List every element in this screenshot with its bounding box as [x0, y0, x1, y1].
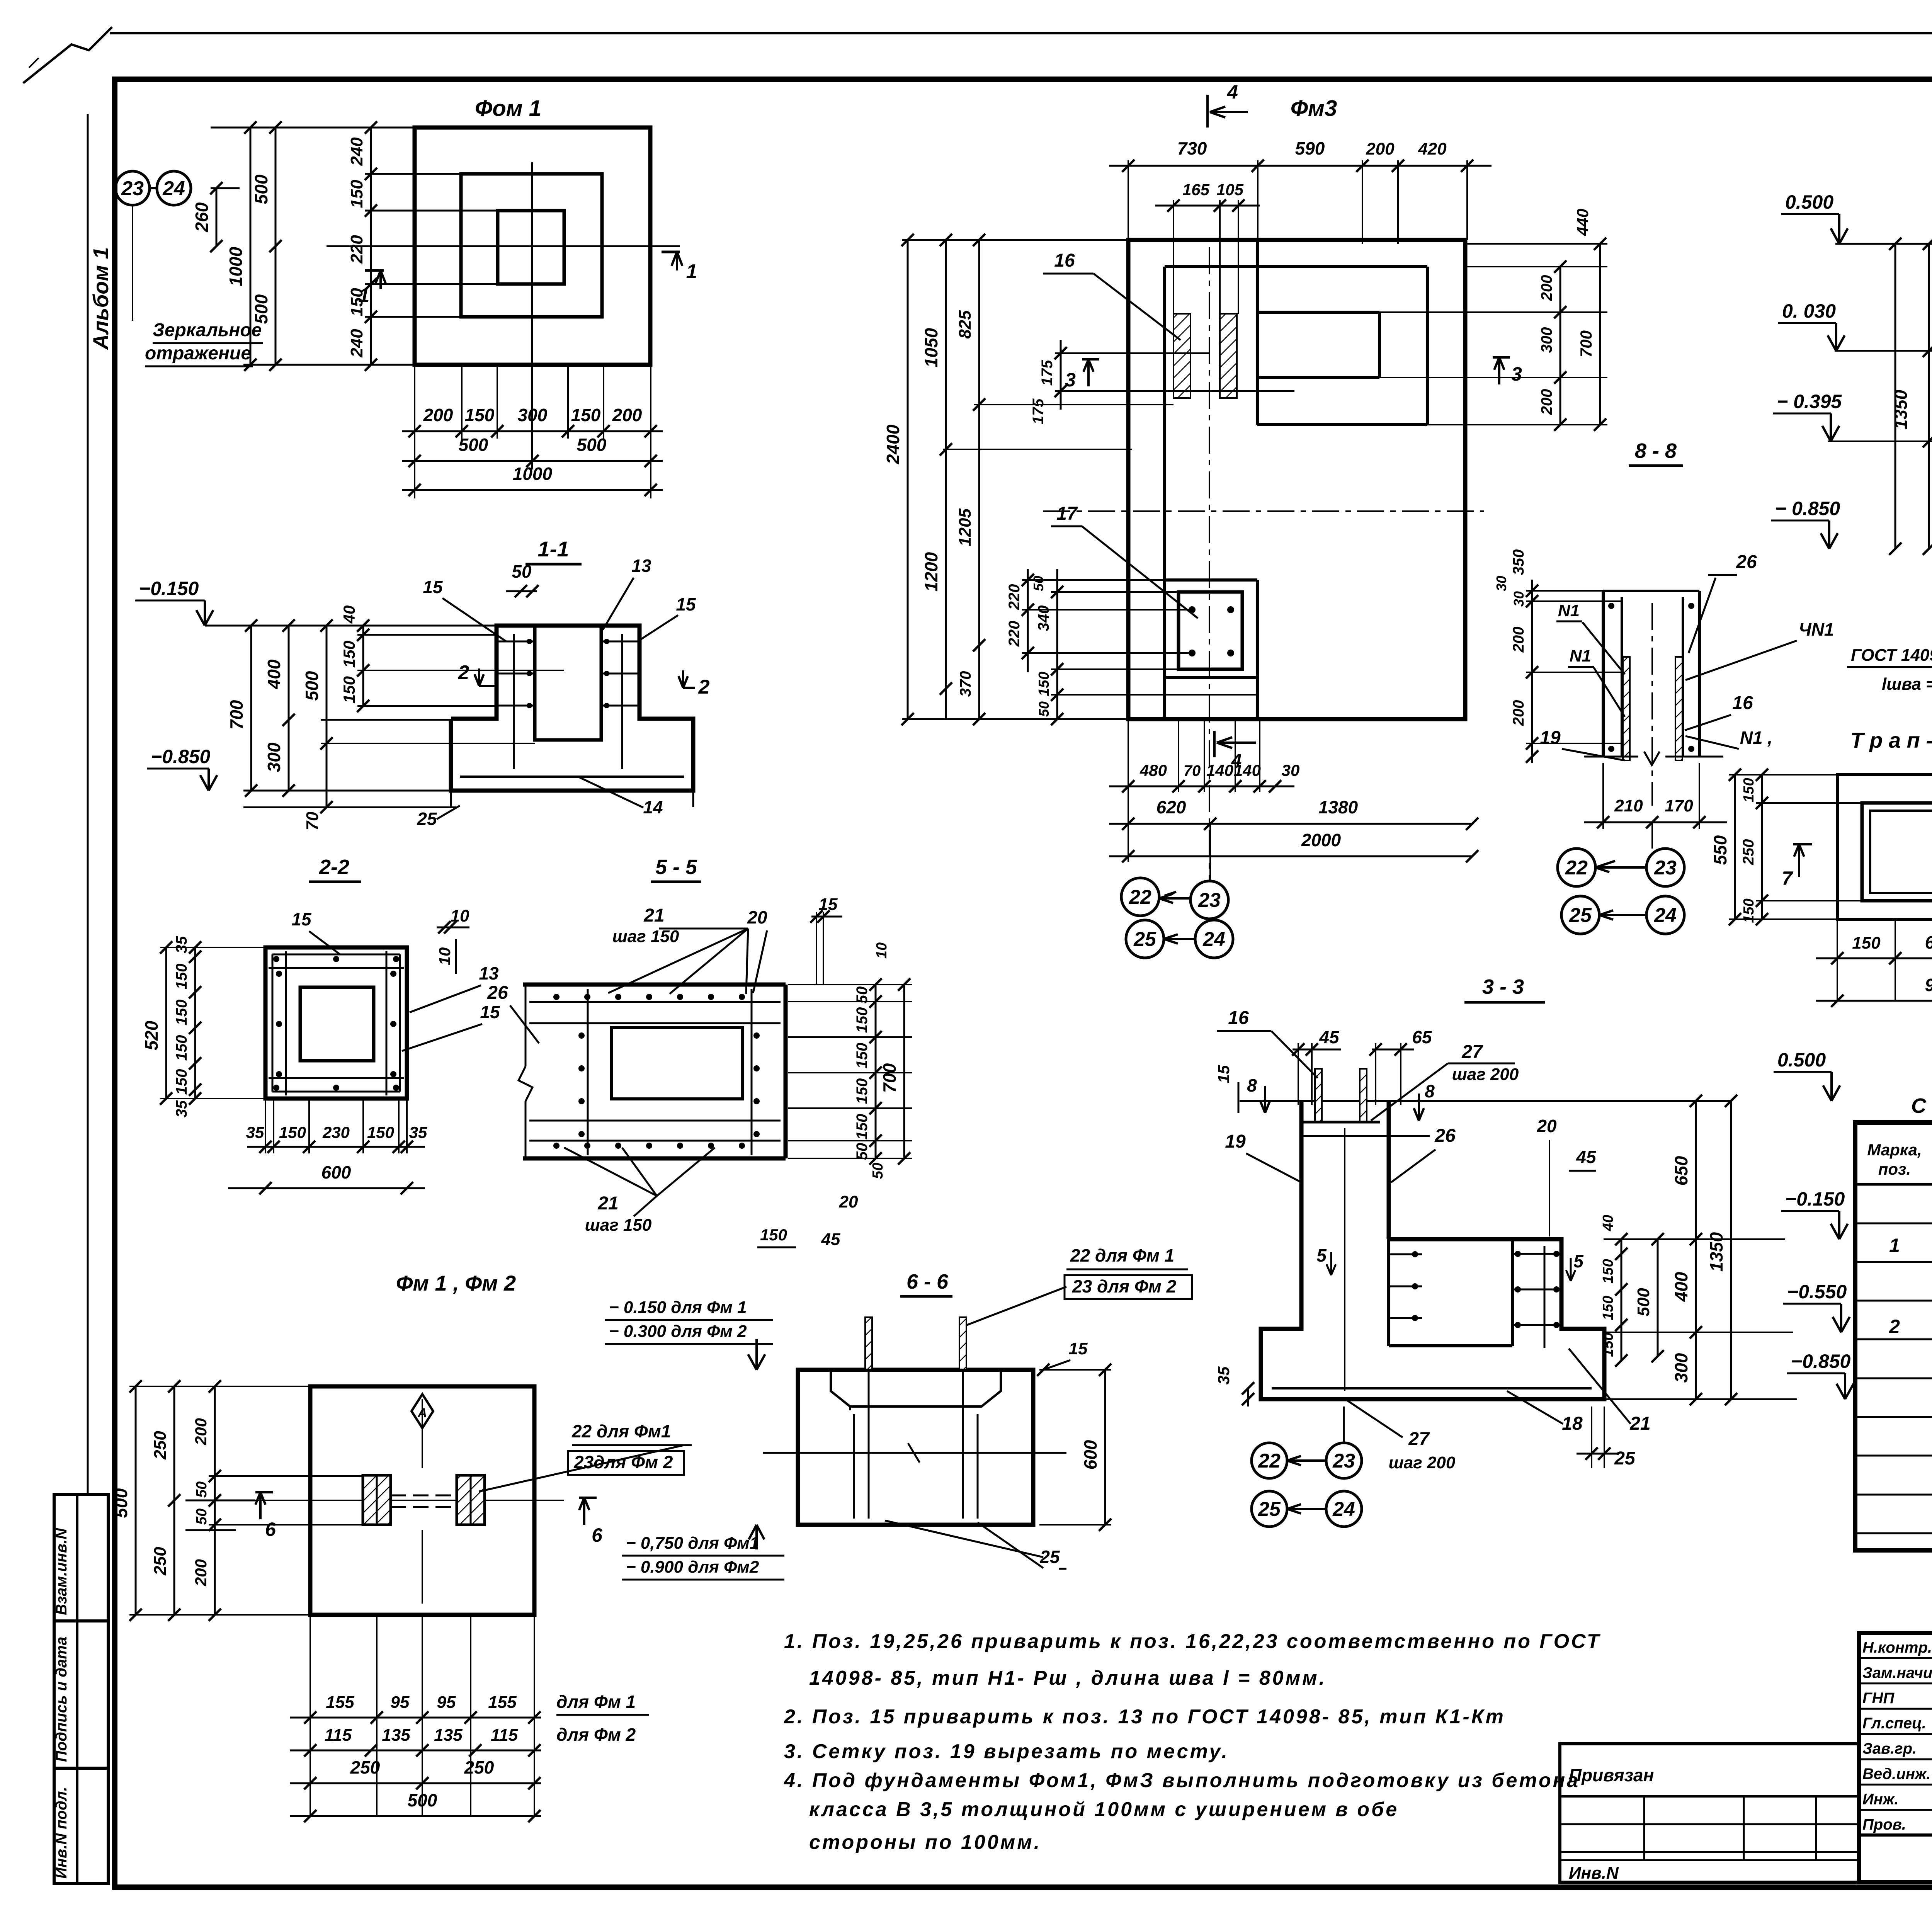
svg-text:115: 115: [325, 1726, 352, 1745]
Fm3 ref circles: [1121, 878, 1159, 916]
svg-text:2: 2: [1889, 1316, 1900, 1337]
trap plan section mark 7: [1793, 844, 1812, 877]
svg-text:− 0.150 для Фм 1: − 0.150 для Фм 1: [609, 1298, 747, 1317]
svg-text:590: 590: [1295, 138, 1325, 158]
svg-text:1000: 1000: [513, 464, 553, 484]
svg-text:1205: 1205: [956, 509, 975, 546]
svg-text:25: 25: [1614, 1448, 1636, 1469]
svg-text:3: 3: [1511, 363, 1522, 385]
1-1 column core: [535, 626, 601, 740]
svg-text:420: 420: [1418, 139, 1447, 158]
svg-text:0.500: 0.500: [1777, 1049, 1826, 1071]
1-1 slab mesh line: [460, 776, 684, 778]
svg-text:210: 210: [1614, 796, 1643, 815]
Fm3 section mark 4 top: [1207, 95, 1248, 128]
8-8 bottom dims: [1584, 821, 1727, 823]
Fm3 inner recess rect: [1257, 311, 1379, 314]
svg-text:200: 200: [1510, 700, 1527, 726]
trap plan bottom dims: [1837, 919, 1838, 1001]
svg-text:26: 26: [1434, 1126, 1456, 1146]
Fm3 right dim chains: [1467, 266, 1607, 267]
Fom1 section mark 1 right: [672, 252, 682, 270]
svg-text:шаг 150: шаг 150: [612, 927, 679, 946]
svg-text:1380: 1380: [1318, 797, 1358, 817]
svg-text:400: 400: [264, 659, 284, 689]
svg-text:ЧN1: ЧN1: [1799, 619, 1834, 639]
svg-text:−0.850: −0.850: [151, 746, 211, 767]
svg-text:50: 50: [870, 1163, 886, 1179]
svg-text:для Фм 2: для Фм 2: [556, 1725, 636, 1745]
svg-text:30: 30: [1511, 591, 1527, 607]
svg-text:140: 140: [1234, 761, 1261, 779]
svg-text:2: 2: [458, 662, 469, 684]
2-2 inner square: [300, 987, 374, 1061]
svg-text:26: 26: [1736, 552, 1757, 572]
Fm3 plan outer rect: [1128, 240, 1465, 719]
svg-text:440: 440: [1573, 209, 1592, 236]
3-3 rebar dots column: [1389, 1253, 1422, 1255]
svg-text:23 для Фм 2: 23 для Фм 2: [1072, 1276, 1177, 1296]
svg-text:Т р а п - п р и я м о к: Т р а п - п р и я м о к: [1850, 728, 1932, 752]
svg-text:200: 200: [1366, 139, 1395, 158]
svg-text:95: 95: [391, 1693, 410, 1712]
svg-text:65: 65: [1412, 1027, 1432, 1047]
svg-text:35: 35: [173, 936, 190, 953]
4-4 level ext lines: [1835, 243, 1932, 245]
svg-text:7: 7: [1782, 867, 1793, 889]
1-1 rebar left: [498, 641, 535, 643]
svg-text:5: 5: [1316, 1245, 1327, 1265]
svg-text:220: 220: [347, 235, 366, 264]
svg-text:220: 220: [1006, 621, 1023, 647]
svg-text:30: 30: [1282, 761, 1300, 779]
6-6 body: [798, 1370, 1033, 1525]
svg-text:2400: 2400: [883, 424, 903, 464]
svg-text:3 - 3: 3 - 3: [1482, 975, 1524, 998]
svg-text:700: 700: [226, 700, 247, 730]
svg-text:500: 500: [577, 435, 607, 455]
8-8 left dims: [1531, 580, 1533, 763]
svg-text:250: 250: [464, 1757, 494, 1777]
svg-text:10: 10: [435, 947, 454, 966]
svg-text:150: 150: [1852, 934, 1881, 952]
8-8 weld dots: [1608, 603, 1614, 609]
svg-text:700: 700: [879, 1063, 900, 1093]
svg-text:8: 8: [1247, 1075, 1257, 1095]
svg-text:Вед.инж.: Вед.инж.: [1862, 1765, 1931, 1782]
2-2 bottom dim chains: [247, 1146, 425, 1148]
svg-text:115: 115: [491, 1726, 518, 1745]
svg-text:21: 21: [643, 905, 664, 926]
Fm3 anchor plate square: [1179, 592, 1242, 669]
Fom1 outer square: [415, 128, 650, 365]
svg-text:19: 19: [1540, 728, 1561, 748]
svg-text:200: 200: [1538, 275, 1555, 301]
svg-text:А: А: [417, 1406, 427, 1420]
svg-text:Зеркальное: Зеркальное: [153, 320, 262, 340]
svg-text:250: 250: [1740, 839, 1757, 866]
svg-text:27: 27: [1408, 1429, 1430, 1449]
svg-text:150: 150: [1036, 672, 1052, 696]
svg-text:200: 200: [423, 405, 453, 425]
svg-text:250: 250: [151, 1547, 170, 1576]
trap plan left dims: [1734, 775, 1736, 919]
svg-text:20: 20: [747, 907, 767, 927]
svg-text:650: 650: [1671, 1156, 1691, 1185]
6-6 right dim: [1104, 1370, 1106, 1525]
svg-text:− 0.900 для Фм2: − 0.900 для Фм2: [626, 1558, 759, 1577]
svg-text:2000: 2000: [1301, 830, 1341, 850]
svg-text:50: 50: [1031, 576, 1046, 591]
svg-text:155: 155: [488, 1693, 517, 1712]
8-8 bottom break: [1584, 756, 1638, 758]
2-2 outer square: [265, 947, 407, 1099]
svg-text:150: 150: [760, 1226, 787, 1244]
svg-text:150: 150: [173, 1069, 190, 1095]
svg-text:600: 600: [1925, 932, 1932, 952]
Fm plan left dim chains: [135, 1386, 137, 1615]
6-6 anchor bolts top: [865, 1317, 872, 1370]
svg-text:25: 25: [1569, 904, 1592, 927]
svg-text:300: 300: [264, 742, 284, 772]
Fom1 center lines: [327, 245, 680, 247]
svg-text:150: 150: [173, 1000, 190, 1026]
sheet top trim line: [110, 32, 1932, 34]
5-5 core rect: [612, 1027, 743, 1099]
svg-text:16: 16: [1054, 250, 1075, 271]
svg-text:lшва = 80 мм: lшва = 80 мм: [1882, 675, 1932, 694]
svg-text:70: 70: [1184, 762, 1201, 779]
svg-text:500: 500: [251, 294, 271, 324]
svg-text:50: 50: [512, 561, 532, 582]
svg-text:45: 45: [1576, 1147, 1597, 1167]
svg-text:240: 240: [347, 329, 366, 358]
svg-text:шаг 200: шаг 200: [1452, 1065, 1519, 1084]
Fom1 dim extension lines horizontals: [211, 127, 415, 129]
svg-text:250: 250: [151, 1431, 170, 1460]
svg-text:200: 200: [192, 1418, 210, 1446]
svg-text:− 0.395: − 0.395: [1777, 391, 1842, 412]
top-left scan artifact: [23, 27, 112, 83]
Fm3 anchor slots hatched: [1173, 314, 1190, 398]
svg-text:620: 620: [1156, 797, 1186, 817]
svg-text:24: 24: [1332, 1498, 1355, 1520]
Fom1 middle square: [461, 174, 602, 317]
6-6 elevation marks left: [748, 1339, 765, 1370]
svg-text:135: 135: [434, 1726, 463, 1745]
Fom1 left dim chains: [216, 188, 218, 246]
svg-text:Инв.N: Инв.N: [1569, 1864, 1619, 1883]
6-6 inner bolts: [853, 1414, 855, 1519]
svg-text:N1 ,: N1 ,: [1740, 728, 1772, 748]
svg-text:50: 50: [1036, 701, 1052, 717]
svg-text:13: 13: [479, 963, 499, 983]
Fm3 section mark 3 left: [1082, 359, 1099, 386]
svg-text:−0.550: −0.550: [1787, 1281, 1847, 1303]
svg-text:150: 150: [854, 1114, 871, 1140]
3-3 podgotovka line: [1272, 1387, 1592, 1389]
svg-text:150: 150: [854, 1007, 871, 1033]
svg-text:22: 22: [1258, 1450, 1281, 1472]
svg-text:0. 030: 0. 030: [1782, 300, 1836, 322]
svg-text:Гл.спец.: Гл.спец.: [1862, 1715, 1926, 1732]
Fom1 circles 23 24: [116, 171, 150, 205]
svg-text:8: 8: [1425, 1081, 1435, 1101]
5-5 rebar bands: [529, 1001, 781, 1003]
Fm3 plate lines: [1165, 578, 1257, 582]
svg-text:19: 19: [1225, 1131, 1246, 1152]
3-3 anchor bolts top: [1315, 1069, 1322, 1122]
svg-text:150: 150: [1600, 1332, 1616, 1357]
svg-text:− 0.300 для Фм 2: − 0.300 для Фм 2: [609, 1322, 747, 1341]
Fm plan section marks 6: [255, 1492, 273, 1519]
svg-text:Альбом 1: Альбом 1: [88, 247, 113, 350]
5-5 broken left edge: [525, 985, 527, 1066]
svg-text:Зав.гр.: Зав.гр.: [1862, 1740, 1917, 1757]
svg-text:Фм3: Фм3: [1291, 96, 1337, 121]
svg-text:45: 45: [1319, 1027, 1340, 1047]
svg-text:стороны по 100мм.: стороны по 100мм.: [809, 1831, 1041, 1854]
svg-text:20: 20: [839, 1192, 858, 1211]
svg-text:5 - 5: 5 - 5: [655, 855, 697, 879]
svg-text:40: 40: [1600, 1215, 1616, 1231]
spec table grid: [1855, 1122, 1932, 1550]
6-6 top plate detail: [823, 1369, 1009, 1371]
Fm3 bottom section mark 4: [1214, 731, 1256, 757]
svg-text:370: 370: [957, 671, 974, 697]
3-3 outline: [1261, 1101, 1604, 1399]
svg-text:14098- 85, тип Н1- Рш , дли: 14098- 85, тип Н1- Рш , длина шва l = 80…: [809, 1667, 1327, 1689]
3-3 ref circles: [1252, 1443, 1287, 1478]
Fm3 top dim row 1: [1128, 160, 1129, 240]
Fm plan center lines: [422, 1399, 423, 1468]
5-5 right dim chains: [875, 985, 877, 1158]
svg-text:1. Поз. 19,25,26 приварить к: 1. Поз. 19,25,26 приварить к поз. 16,22,…: [784, 1630, 1601, 1653]
3-3 center dash line: [1344, 1128, 1345, 1391]
svg-text:35: 35: [1214, 1366, 1233, 1384]
svg-text:10: 10: [451, 906, 469, 925]
Fm3 top dim row 2: [1173, 200, 1174, 314]
svg-text:Марка,: Марка,: [1867, 1141, 1922, 1159]
svg-text:150: 150: [1600, 1296, 1616, 1320]
svg-text:500: 500: [1634, 1288, 1653, 1316]
svg-text:1000: 1000: [226, 247, 246, 286]
Fm3 inner top line: [1165, 265, 1427, 268]
svg-text:Н.контр.: Н.контр.: [1862, 1639, 1932, 1656]
svg-text:поз.: поз.: [1878, 1160, 1911, 1178]
svg-text:15: 15: [1214, 1065, 1233, 1083]
svg-text:22: 22: [1129, 886, 1151, 908]
svg-text:300: 300: [1538, 327, 1555, 353]
svg-text:1050: 1050: [921, 328, 941, 367]
svg-text:155: 155: [326, 1693, 354, 1712]
svg-text:−0.150: −0.150: [139, 578, 199, 599]
svg-text:10: 10: [874, 942, 890, 959]
svg-text:150: 150: [367, 1123, 394, 1141]
1-1 section outline: [451, 626, 693, 791]
svg-text:2-2: 2-2: [319, 855, 349, 879]
svg-text:6 - 6: 6 - 6: [906, 1270, 949, 1293]
svg-text:N1: N1: [1570, 646, 1591, 665]
svg-text:175: 175: [1039, 360, 1056, 386]
svg-text:50: 50: [194, 1481, 210, 1498]
8-8 ref circles: [1558, 849, 1595, 886]
Fm3 inner bottom line upper room: [1257, 423, 1427, 426]
svg-text:Инв.N подл.: Инв.N подл.: [53, 1787, 70, 1879]
svg-text:16: 16: [1228, 1008, 1249, 1028]
svg-text:150: 150: [173, 964, 190, 990]
svg-text:шаг 200: шаг 200: [1389, 1453, 1456, 1472]
svg-text:22: 22: [1565, 857, 1588, 879]
svg-text:16: 16: [1732, 693, 1753, 713]
svg-text:класса В 3,5 толщиной 10: класса В 3,5 толщиной 100мм с уширением …: [809, 1798, 1399, 1821]
svg-text:500: 500: [111, 1488, 131, 1518]
svg-text:ГНП: ГНП: [1862, 1690, 1895, 1707]
svg-text:Инж.: Инж.: [1862, 1791, 1899, 1808]
svg-text:13: 13: [631, 556, 651, 576]
svg-text:− 0,750 для Фм1: − 0,750 для Фм1: [626, 1534, 759, 1553]
2-2 left dim chains: [165, 947, 167, 1099]
svg-text:150: 150: [340, 641, 358, 668]
svg-text:165: 165: [1182, 180, 1210, 199]
Fom1 bottom dim chains: [461, 365, 463, 439]
svg-text:6: 6: [265, 1519, 276, 1540]
Fm plan embeds: [363, 1475, 391, 1525]
svg-text:− 0.850: − 0.850: [1775, 498, 1840, 519]
svg-text:N1: N1: [1558, 601, 1580, 620]
svg-text:150: 150: [1741, 778, 1757, 802]
svg-text:15: 15: [1069, 1339, 1088, 1358]
svg-text:шаг 150: шаг 150: [585, 1216, 652, 1235]
svg-text:22 для Фм 1: 22 для Фм 1: [1070, 1245, 1174, 1265]
svg-text:21: 21: [597, 1193, 618, 1214]
sheet left trim line: [87, 114, 89, 1493]
svg-text:Пров.: Пров.: [1862, 1816, 1906, 1833]
8-8 plates: [1602, 591, 1605, 757]
svg-text:23: 23: [121, 177, 144, 200]
svg-text:−0.150: −0.150: [1785, 1188, 1845, 1210]
svg-text:18: 18: [1562, 1413, 1583, 1434]
svg-text:200: 200: [612, 405, 642, 425]
svg-text:20: 20: [1536, 1116, 1557, 1136]
svg-text:35: 35: [409, 1123, 427, 1141]
svg-text:17: 17: [1056, 503, 1078, 524]
svg-text:170: 170: [1665, 796, 1693, 815]
svg-text:15: 15: [676, 594, 696, 614]
svg-text:14: 14: [643, 797, 663, 817]
svg-text:150: 150: [279, 1123, 306, 1141]
svg-text:ГОСТ 14098- 85- Н1- Рш: ГОСТ 14098- 85- Н1- Рш: [1851, 646, 1932, 665]
svg-text:200: 200: [192, 1559, 210, 1587]
svg-text:5: 5: [1573, 1251, 1584, 1271]
svg-text:150: 150: [173, 1035, 190, 1061]
Fm3 bottom dim rows: [1128, 719, 1129, 792]
svg-text:Фом 1: Фом 1: [475, 96, 541, 121]
1-1 dim chains: [250, 626, 252, 791]
svg-text:8 - 8: 8 - 8: [1635, 439, 1677, 463]
svg-text:480: 480: [1139, 761, 1167, 779]
svg-text:550: 550: [1710, 835, 1730, 865]
svg-text:25: 25: [1258, 1498, 1281, 1520]
svg-text:24: 24: [1202, 928, 1225, 951]
Fom1 inner square: [498, 211, 564, 284]
svg-text:1350: 1350: [1706, 1232, 1726, 1272]
Fm3 mid dim chains: [1060, 340, 1062, 410]
svg-text:50: 50: [194, 1509, 210, 1525]
6-6 break line: [763, 1452, 1066, 1454]
svg-text:35: 35: [173, 1100, 190, 1117]
svg-text:23для Фм 2: 23для Фм 2: [573, 1452, 673, 1472]
svg-text:200: 200: [1510, 627, 1527, 653]
Fm plan diamond mark A: [412, 1394, 433, 1428]
svg-text:600: 600: [321, 1162, 351, 1182]
3-3 inner pit lines: [1387, 1239, 1390, 1346]
svg-text:150: 150: [571, 405, 601, 425]
svg-text:300: 300: [1671, 1353, 1691, 1383]
svg-text:4: 4: [1227, 81, 1238, 103]
svg-text:Подпись и дата: Подпись и дата: [53, 1637, 70, 1762]
svg-text:6: 6: [592, 1524, 603, 1546]
svg-text:25: 25: [1133, 928, 1156, 951]
svg-text:220: 220: [1006, 584, 1023, 611]
svg-text:24: 24: [162, 177, 185, 200]
svg-text:50: 50: [854, 1143, 871, 1160]
svg-text:150: 150: [347, 288, 366, 316]
svg-text:26: 26: [487, 983, 508, 1003]
svg-text:25: 25: [417, 809, 437, 829]
svg-text:1350: 1350: [1891, 389, 1911, 429]
svg-text:700: 700: [1577, 330, 1595, 357]
svg-text:23: 23: [1654, 857, 1677, 879]
svg-text:260: 260: [192, 202, 212, 232]
svg-text:1-1: 1-1: [538, 537, 569, 561]
svg-text:900: 900: [1925, 975, 1932, 995]
svg-text:500: 500: [459, 435, 488, 455]
Fm plan embed dashed links: [391, 1495, 457, 1497]
svg-text:24: 24: [1654, 904, 1677, 927]
svg-text:40: 40: [340, 605, 358, 624]
svg-text:300: 300: [518, 405, 548, 425]
title block signature table: [1859, 1633, 1932, 1882]
svg-text:400: 400: [1671, 1272, 1691, 1302]
svg-text:Привязан: Привязан: [1569, 1765, 1654, 1785]
Fm3 horiz ext lines: [902, 239, 1128, 241]
svg-text:140: 140: [1206, 761, 1233, 779]
Fm3 section mark 3 right: [1493, 357, 1510, 384]
svg-text:135: 135: [382, 1726, 410, 1745]
svg-text:500: 500: [302, 671, 322, 701]
3-3 right dim chains small: [1621, 1239, 1622, 1361]
svg-text:1: 1: [686, 260, 697, 283]
svg-text:4. Под фундаменты Фом1, ФмЗ: 4. Под фундаменты Фом1, ФмЗ выполнить по…: [784, 1769, 1580, 1792]
svg-text:22 для Фм1: 22 для Фм1: [571, 1421, 671, 1441]
Fm plan bottom dim chains: [310, 1615, 311, 1816]
svg-text:Взам.инв.N: Взам.инв.N: [53, 1528, 70, 1615]
svg-text:105: 105: [1216, 180, 1244, 199]
svg-text:150: 150: [347, 180, 366, 208]
svg-text:500: 500: [408, 1790, 437, 1810]
svg-text:3: 3: [1065, 369, 1076, 391]
svg-text:2. Поз. 15 приварить к поз: 2. Поз. 15 приварить к поз. 13 по ГОСТ 1…: [784, 1706, 1505, 1728]
svg-text:520: 520: [141, 1020, 162, 1050]
svg-text:27: 27: [1461, 1042, 1483, 1062]
svg-text:45: 45: [821, 1230, 840, 1249]
svg-text:15: 15: [291, 909, 312, 929]
Fm plan square: [310, 1386, 534, 1615]
svg-text:175: 175: [1030, 398, 1047, 424]
trap plan rects: [1837, 775, 1932, 919]
svg-text:35: 35: [246, 1123, 264, 1141]
